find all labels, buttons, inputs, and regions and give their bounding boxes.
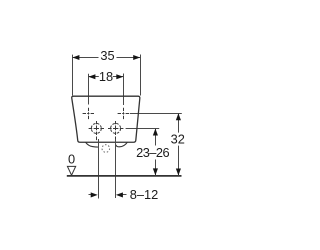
svg-text:23–26: 23–26 [136, 145, 169, 160]
svg-text:8–12: 8–12 [130, 187, 158, 202]
svg-text:0: 0 [68, 152, 75, 167]
svg-text:32: 32 [171, 132, 185, 147]
svg-text:18: 18 [99, 69, 113, 84]
svg-text:35: 35 [100, 48, 114, 63]
